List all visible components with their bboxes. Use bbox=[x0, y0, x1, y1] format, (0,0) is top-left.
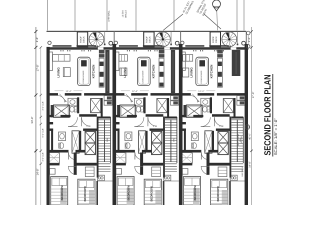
unit 1 stair top landing wall bbox=[99, 117, 111, 119]
svg-text:LIVING: LIVING bbox=[57, 67, 61, 78]
svg-text:DISHWASHER: DISHWASHER bbox=[142, 70, 145, 83]
unit 1 dresser bbox=[85, 167, 94, 177]
roof deck front guardrail line bbox=[47, 31, 247, 33]
unit 2 bath left wall stub bbox=[117, 105, 120, 117]
svg-text:12'-4": 12'-4" bbox=[132, 90, 138, 93]
unit 2 toilet bbox=[136, 107, 140, 113]
svg-text:4'-6": 4'-6" bbox=[36, 37, 39, 42]
leader from spiral stair label bbox=[204, 14, 221, 29]
unit 2 window sill ticks bbox=[126, 50, 129, 51]
unit 1 bedroom door arc bbox=[68, 166, 76, 174]
unit 2 washer dryer stack bbox=[152, 131, 162, 143]
label SPIRAL STAIR TO ROOF DECK rotated bbox=[196, 0, 212, 16]
unit 3 kitchen counter bbox=[217, 58, 222, 87]
svg-text:KITCHEN: KITCHEN bbox=[151, 64, 155, 79]
unit 1 hall door arc 2 bbox=[82, 117, 91, 126]
unit 2 bath2 toilet bbox=[126, 143, 130, 149]
unit 1 deck privacy post bbox=[109, 41, 113, 45]
unit 3 washer dryer stack bbox=[218, 131, 228, 143]
svg-text:DISHWASHER: DISHWASHER bbox=[82, 70, 85, 83]
unit 2 wall living-hall bbox=[113, 93, 125, 96]
unit 3 linen closet bbox=[223, 99, 233, 113]
unit 3 nightstand 2 bbox=[230, 175, 237, 180]
unit 1 deck door gap bbox=[98, 47, 104, 49]
unit 1 stair wall lower bbox=[97, 164, 99, 178]
unit 1 bedroom door arc bbox=[69, 153, 76, 160]
unit 1 stair treads bbox=[99, 120, 111, 162]
unit 3 bed 2 bbox=[211, 179, 228, 205]
unit 1 kitchen island bbox=[78, 57, 91, 85]
svg-text:BEDROOM: BEDROOM bbox=[216, 186, 220, 202]
unit 2 stair treads bbox=[165, 120, 177, 162]
unit 3 roof deck post bbox=[181, 41, 184, 44]
unit 1 wall above washer dryer bbox=[83, 129, 98, 131]
unit 3 bedroom closet bbox=[181, 153, 192, 164]
unit 2 hall closet wall bbox=[113, 122, 120, 124]
unit 3 bath2 tub bbox=[205, 131, 212, 153]
unit 2 island sink bbox=[141, 60, 147, 66]
unit 2 bath right wall bbox=[144, 97, 146, 113]
unit 2 hall door arc 2 bbox=[148, 117, 157, 126]
unit 3 landing wall bbox=[209, 163, 229, 166]
unit 2 stair bottom treads bbox=[165, 164, 177, 172]
unit 3 bath leader arrow bbox=[192, 94, 199, 102]
svg-text:KITCHEN: KITCHEN bbox=[91, 64, 95, 79]
unit 1 shelf boxes near party wall bbox=[104, 96, 112, 101]
unit 2 deck door gap bbox=[164, 47, 170, 49]
unit 3 bath left wall stub bbox=[184, 105, 187, 117]
unit 2 bath door arc lower bbox=[134, 117, 144, 127]
unit 1 bath shower bbox=[54, 105, 70, 117]
unit 1 bath right wall bbox=[77, 97, 79, 113]
unit 2 bedroom door arc bbox=[135, 166, 143, 174]
unit 3 stair wall lower bbox=[230, 164, 232, 178]
svg-text:3'-0" CLR: 3'-0" CLR bbox=[42, 101, 45, 110]
unit 2 nightstand 1 bbox=[116, 169, 122, 175]
unit 3 deck privacy post bbox=[242, 41, 246, 45]
svg-text:SCALE: 1/8" = 1'-0": SCALE: 1/8" = 1'-0" bbox=[274, 118, 278, 156]
detail callout marker top right bbox=[213, 0, 221, 8]
unit 1 bath2 toilet bbox=[59, 143, 63, 149]
unit 1 bath2 right wall bbox=[79, 131, 81, 152]
unit 2 plumbing chase wall bbox=[171, 50, 175, 93]
unit 1 deck divider bbox=[104, 32, 106, 46]
unit 3 island sink bbox=[199, 60, 205, 66]
unit 1 stair rails bbox=[110, 117, 112, 163]
unit 2 wall hall-bedroom bbox=[113, 150, 135, 153]
svg-text:17'-8": 17'-8" bbox=[252, 92, 255, 99]
unit 1 deck guardrail segment 2 bbox=[77, 45, 97, 47]
unit 1 wall bath bottom bbox=[79, 114, 97, 117]
unit 2 sofa bbox=[114, 52, 119, 71]
unit 1 nightstand 1 bbox=[50, 169, 56, 175]
svg-text:12'-4": 12'-4" bbox=[198, 90, 204, 93]
unit 1 bed 1 bbox=[51, 177, 68, 206]
unit 3 wall bath bottom bbox=[212, 114, 230, 117]
svg-text:5'-0" CLR: 5'-0" CLR bbox=[42, 128, 45, 137]
unit 2 wall between bedrooms bbox=[140, 153, 143, 176]
unit 3 bedroom door arc bbox=[201, 153, 208, 160]
svg-text:DECK: DECK bbox=[149, 36, 152, 43]
svg-text:12'-4": 12'-4" bbox=[65, 90, 71, 93]
svg-text:DN: DN bbox=[106, 138, 109, 142]
unit 3 stair bottom treads bbox=[231, 164, 243, 172]
unit 3 stair treads bbox=[231, 120, 243, 162]
svg-text:WALLS: WALLS bbox=[124, 10, 127, 18]
unit 3 roof deck spiral stair bbox=[222, 32, 237, 47]
unit 2 nightstand 2 bbox=[164, 175, 171, 180]
right datum markers bbox=[246, 31, 250, 35]
unit 3 deck divider bbox=[237, 32, 239, 46]
unit 3 hall door arc 2 bbox=[214, 117, 223, 126]
unit 3 hall closet wall bbox=[179, 122, 186, 124]
unit 2 wall bath bottom bbox=[146, 114, 164, 117]
unit 1 roof deck post bbox=[48, 41, 51, 44]
wire guardrail projection lines above roof deck bbox=[47, 0, 49, 32]
unit 1 hall door arc at living bbox=[58, 96, 65, 103]
unit 3 nightstand 1 bbox=[182, 169, 188, 175]
unit 2 kitchen island bbox=[137, 57, 150, 85]
front exterior wall bbox=[47, 47, 249, 50]
unit 3 bath door arc lower bbox=[201, 117, 211, 127]
left exterior wall bbox=[47, 47, 50, 205]
svg-text:5'-0": 5'-0" bbox=[153, 125, 157, 128]
right exterior wall bbox=[245, 44, 248, 205]
unit 3 deck guardrail segment 2 bbox=[209, 45, 229, 47]
unit 2 bath2 right wall bbox=[146, 131, 148, 152]
party wall 2 bbox=[179, 44, 183, 205]
unit 3 toilet bbox=[203, 107, 207, 113]
svg-text:ROOF: ROOF bbox=[79, 36, 82, 43]
unit 2 bedroom closet bbox=[115, 153, 126, 164]
unit 2 bath2 vanity bbox=[125, 132, 132, 141]
unit 3 wall between bedrooms bbox=[207, 153, 210, 176]
unit 3 bath2 right wall bbox=[212, 131, 214, 152]
unit 1 wall living-hall bbox=[47, 93, 59, 96]
svg-text:BEDROOM: BEDROOM bbox=[193, 185, 197, 201]
unit 2 dresser bbox=[152, 167, 161, 177]
unit 2 roof deck spiral stair bbox=[156, 32, 171, 47]
svg-text:SECOND FLOOR PLAN: SECOND FLOOR PLAN bbox=[263, 75, 273, 156]
unit 2 closet right wall bbox=[167, 98, 169, 117]
unit 3 bath2 left wall bbox=[184, 129, 186, 152]
unit 3 bedroom door arc bbox=[201, 166, 209, 174]
leader from guardrail label bbox=[163, 14, 183, 31]
unit 2 bath shower bbox=[120, 105, 136, 117]
svg-text:5'-0": 5'-0" bbox=[219, 125, 223, 128]
unit 1 washer dryer stack bbox=[85, 131, 95, 143]
svg-text:ROOF: ROOF bbox=[212, 36, 215, 43]
unit 3 plumbing chase wall bbox=[232, 50, 241, 76]
svg-text:40'-0": 40'-0" bbox=[249, 133, 252, 140]
svg-text:3'-0" CLR: 3'-0" CLR bbox=[42, 152, 45, 161]
unit 1 stair bottom treads bbox=[99, 164, 111, 172]
unit 2 bath vanity bbox=[134, 98, 143, 106]
unit 1 sofa bbox=[47, 52, 52, 71]
unit 2 armchair bbox=[120, 68, 127, 76]
svg-text:BEDROOM: BEDROOM bbox=[83, 186, 87, 202]
unit 3 armchair bbox=[181, 68, 189, 77]
unit 1 toilet bbox=[70, 107, 74, 113]
unit 2 stair rails bbox=[176, 117, 178, 163]
unit 3 bed 1 bbox=[184, 177, 201, 206]
unit 2 bed 1 bbox=[117, 177, 134, 206]
unit 1 hall closet wall bbox=[47, 122, 54, 124]
svg-text:5'-0": 5'-0" bbox=[87, 125, 91, 128]
unit 3 bath vanity bbox=[201, 98, 210, 106]
unit 2 landing wall bbox=[143, 163, 163, 166]
unit 1 bath left wall stub bbox=[51, 105, 54, 117]
unit 3 stair rails bbox=[242, 117, 244, 163]
unit 1 tall cabinets fridge oven bbox=[99, 50, 105, 54]
unit 3 wall hall-bedroom bbox=[179, 150, 201, 153]
svg-text:2'-2": 2'-2" bbox=[75, 109, 79, 112]
svg-text:17'-8": 17'-8" bbox=[37, 65, 40, 72]
svg-text:1HR WALL: 1HR WALL bbox=[241, 166, 244, 177]
svg-text:1HR WALL: 1HR WALL bbox=[107, 10, 110, 22]
unit 1 linen closet bbox=[91, 99, 101, 113]
unit 2 bedroom2 closet walls bbox=[163, 181, 165, 205]
unit 2 roof deck post bbox=[114, 41, 117, 44]
svg-text:10.5IN: 10.5IN bbox=[122, 10, 125, 17]
svg-text:DECK: DECK bbox=[215, 36, 218, 43]
svg-text:ROOF: ROOF bbox=[146, 36, 149, 43]
unit 2 stair wall lower bbox=[163, 164, 165, 178]
svg-text:50'-8": 50'-8" bbox=[31, 117, 34, 124]
unit 1 stair left wall bbox=[97, 117, 99, 164]
unit 2 deck divider bbox=[170, 32, 172, 46]
unit 1 bedroom2 closet walls bbox=[96, 181, 98, 205]
unit 3 wall living-hall bbox=[179, 93, 191, 96]
unit 2 linen closet bbox=[157, 99, 167, 113]
unit 3 stair bulkhead on deck bbox=[210, 32, 220, 47]
label 42 IN EXT GUARDRAIL rotated bbox=[182, 0, 195, 15]
unit 1 bath vanity bbox=[68, 98, 77, 106]
svg-text:DECK: DECK bbox=[82, 36, 85, 43]
svg-text:DUCT FROM: DUCT FROM bbox=[237, 134, 240, 146]
unit 3 kitchen island bbox=[196, 57, 209, 85]
svg-text:LIVING: LIVING bbox=[123, 67, 127, 78]
unit 1 bath2 left wall bbox=[51, 129, 53, 152]
unit 2 stair left wall bbox=[163, 117, 165, 164]
unit 3 sofa bbox=[180, 52, 185, 71]
svg-text:BEDROOM: BEDROOM bbox=[149, 186, 153, 202]
svg-text:2'-2": 2'-2" bbox=[207, 109, 211, 112]
svg-text:14'-8": 14'-8" bbox=[249, 161, 252, 168]
svg-text:BEDROOM: BEDROOM bbox=[126, 185, 130, 201]
unit 2 deck privacy post bbox=[175, 41, 179, 45]
party wall 1 bbox=[113, 44, 117, 205]
unit 2 closet bottom wall bbox=[113, 163, 126, 165]
svg-text:BEDROOM: BEDROOM bbox=[60, 185, 64, 201]
unit 3 deck guardrail segment 1 bbox=[185, 45, 204, 47]
unit 1 roof deck spiral stair bbox=[89, 32, 104, 47]
unit 2 shelf boxes near party wall bbox=[171, 96, 179, 101]
unit 3 closet bottom wall bbox=[179, 163, 192, 165]
unit 2 deck guardrail segment 2 bbox=[143, 45, 163, 47]
unit 3 stair top landing wall bbox=[231, 117, 243, 119]
unit 3 bath shower bbox=[186, 105, 202, 117]
deck side wall stubs at party walls bbox=[113, 32, 115, 45]
unit 3 bath2 toilet bbox=[192, 143, 196, 149]
unit 3 hall door arc at living bbox=[191, 96, 198, 103]
unit 2 wall above washer dryer bbox=[150, 129, 165, 131]
unit 1 wall hall-bedroom bbox=[47, 150, 69, 153]
unit 2 bedroom door arc bbox=[135, 153, 142, 160]
svg-text:2'-2": 2'-2" bbox=[141, 109, 145, 112]
unit 1 kitchen counter bbox=[99, 58, 104, 87]
svg-text:DN: DN bbox=[172, 138, 175, 142]
unit 1 closet right wall bbox=[101, 98, 103, 117]
unit 3 tall cabinets fridge oven bbox=[217, 50, 223, 54]
left dimension line outer bbox=[35, 27, 37, 205]
unit 1 landing wall bbox=[77, 163, 97, 166]
unit 2 hall door arc at living bbox=[124, 96, 131, 103]
unit 2 tall cabinets fridge oven bbox=[159, 50, 165, 54]
unit 1 closet bottom wall bbox=[47, 163, 60, 165]
unit 1 plumbing chase wall bbox=[105, 50, 109, 93]
unit 1 island sink bbox=[81, 60, 87, 66]
title underline rule bbox=[272, 74, 274, 157]
unit 3 stair left wall bbox=[230, 117, 232, 164]
unit 3 wall above washer dryer bbox=[216, 129, 231, 131]
unit 2 bath2 tub bbox=[138, 131, 145, 153]
unit 2 stair bulkhead on deck bbox=[144, 32, 154, 47]
svg-text:14'-8": 14'-8" bbox=[37, 169, 40, 176]
unit 1 armchair bbox=[63, 68, 70, 77]
right dimension line inner bbox=[251, 27, 253, 205]
unit 3 dresser bbox=[218, 167, 227, 177]
unit 1 window sill ticks bbox=[60, 50, 63, 51]
unit 1 bedroom closet bbox=[48, 153, 59, 164]
unit 1 deck guardrail segment 1 bbox=[53, 45, 72, 47]
unit 3 closet right wall bbox=[234, 98, 236, 117]
leader from callout to deck bbox=[216, 11, 219, 31]
unit 1 wall between bedrooms bbox=[74, 153, 77, 176]
unit 3 bath right wall bbox=[210, 97, 212, 113]
unit 3 shelf boxes near party wall bbox=[237, 96, 245, 101]
svg-text:KITCHEN: KITCHEN bbox=[210, 64, 214, 79]
unit 1 nightstand 2 bbox=[97, 175, 104, 180]
unit 3 window sill ticks bbox=[192, 50, 195, 51]
unit 1 bath2 vanity bbox=[59, 132, 66, 141]
svg-text:LIVING: LIVING bbox=[190, 67, 194, 78]
unit 2 bed 2 bbox=[144, 179, 161, 205]
unit 1 bed 2 bbox=[78, 179, 95, 205]
unit 3 bath2 vanity bbox=[191, 132, 198, 141]
unit 1 bath2 tub bbox=[72, 131, 79, 153]
left dimension line inner bbox=[40, 47, 42, 205]
unit 1 bath leader arrow bbox=[60, 94, 67, 102]
svg-text:BELOW: BELOW bbox=[240, 136, 243, 143]
unit 2 stair top landing wall bbox=[165, 117, 177, 119]
unit 2 bath leader arrow bbox=[126, 94, 133, 102]
unit 3 bedroom2 closet walls bbox=[229, 181, 231, 205]
unit 2 bath2 left wall bbox=[118, 129, 120, 152]
unit 2 deck guardrail segment 1 bbox=[119, 45, 138, 47]
svg-text:DISHWASHER: DISHWASHER bbox=[200, 70, 203, 83]
unit 2 kitchen counter bbox=[159, 58, 164, 87]
unit 1 bath door arc lower bbox=[68, 117, 78, 127]
unit 1 stair bulkhead on deck bbox=[77, 32, 87, 47]
unit 3 deck door gap bbox=[230, 47, 236, 49]
level marker right bbox=[245, 125, 250, 130]
